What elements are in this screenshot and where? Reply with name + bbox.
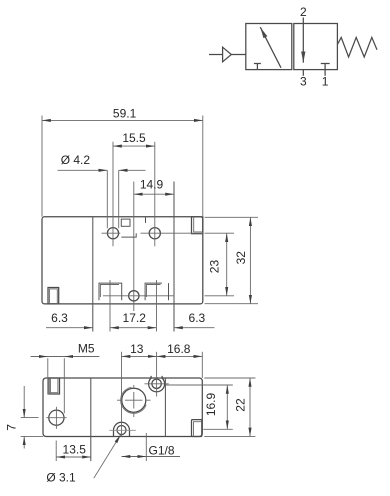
- svg-text:Ø 4.2: Ø 4.2: [61, 153, 91, 167]
- dim 7 extension top: [21, 417, 39, 419]
- valve box left: [246, 24, 292, 70]
- dim 4.2 leader right: [119, 169, 146, 171]
- M5 bore line left: [47, 358, 49, 394]
- hole left vertical centerline: [112, 142, 114, 247]
- side port square inner: [49, 289, 57, 304]
- svg-text:17.2: 17.2: [123, 311, 147, 325]
- side outlet horizontal centerline: [46, 417, 66, 419]
- M5 bore line right: [63, 358, 65, 413]
- svg-text:Ø 3.1: Ø 3.1: [46, 471, 76, 485]
- breather horizontal centerline: [109, 429, 136, 431]
- dim G1/8 arrow right: [138, 456, 146, 458]
- valve box right: [294, 24, 338, 70]
- dim M5 arrow right: [64, 356, 73, 358]
- dim 22 extension top: [204, 377, 255, 379]
- exhaust hole bottom: [129, 291, 139, 301]
- svg-text:6.3: 6.3: [189, 311, 206, 325]
- pocket notch: [121, 219, 130, 226]
- pilot triangle: [223, 47, 232, 62]
- top view left division wire: [92, 217, 94, 332]
- port 2 line with arrow: [302, 18, 304, 63]
- mounting hole left: [107, 228, 118, 239]
- dim 32 line: [249, 217, 251, 303]
- leader 3.1: [94, 435, 121, 478]
- top view center line: [133, 182, 135, 312]
- dim 13 line: [122, 355, 157, 357]
- G1/8 thread arc: [121, 387, 147, 413]
- svg-text:14.9: 14.9: [140, 178, 164, 192]
- dim 16.8 line: [157, 355, 203, 357]
- svg-text:16.8: 16.8: [167, 342, 191, 356]
- dim 23 extension top: [205, 232, 235, 234]
- pilot port inner circle: [152, 379, 161, 388]
- top view body: [42, 217, 203, 304]
- pilot port outer circle: [149, 376, 165, 392]
- svg-text:3: 3: [300, 75, 307, 89]
- svg-text:23: 23: [207, 260, 221, 274]
- svg-text:13: 13: [130, 342, 144, 356]
- hole right horizontal centerline: [141, 232, 204, 234]
- dim 32 extension top: [205, 216, 259, 218]
- svg-text:6.3: 6.3: [51, 311, 68, 325]
- hole left horizontal centerline: [102, 232, 121, 234]
- pocket step: [121, 233, 136, 237]
- pilot to box wire: [231, 54, 246, 56]
- G1/8 horizontal centerline: [117, 399, 151, 401]
- svg-text:1: 1: [322, 75, 329, 89]
- bottom view body: [43, 378, 202, 437]
- M5 port square inner: [50, 378, 58, 393]
- svg-text:13.5: 13.5: [63, 443, 87, 457]
- dim 6.3 right line: [174, 327, 215, 329]
- bottom view left division wire: [90, 378, 92, 461]
- pilot port horizontal centerline: [145, 383, 169, 385]
- bottom port centerline right: [156, 280, 158, 332]
- dim 16.9 extension bottom: [203, 428, 233, 430]
- dim G1/8 arrow left: [122, 456, 131, 458]
- breather hole circle: [117, 426, 126, 435]
- dim 7 extension bottom: [21, 435, 43, 437]
- dim 7 lower arrow: [23, 436, 25, 448]
- dim 13.5 line: [56, 456, 91, 458]
- spring: [337, 37, 377, 57]
- right port square inner: [194, 422, 202, 437]
- G1/8 port circle: [122, 388, 146, 412]
- side outlet vertical centerline: [55, 407, 57, 429]
- svg-text:G1/8: G1/8: [149, 443, 175, 457]
- dim M5 line: [31, 356, 100, 358]
- pilot line: [209, 54, 223, 56]
- mounting hole right: [149, 228, 160, 239]
- small tick right hole: [145, 217, 147, 223]
- dim 23 extension bottom: [205, 295, 235, 297]
- dim 14.9 line: [134, 193, 174, 195]
- bottom port bracket left inner: [100, 285, 119, 298]
- bottom port bracket left: [99, 283, 122, 300]
- svg-text:22: 22: [234, 398, 248, 412]
- exhaust hole horizontal centerline: [103, 295, 174, 297]
- G1/8 vertical centerline: [133, 385, 135, 417]
- dim 6.3 left line: [46, 327, 93, 329]
- top view right division wire: [173, 182, 175, 332]
- dim 15.5 line: [113, 145, 155, 147]
- dim M5 arrow left: [39, 356, 48, 358]
- dim 7 upper arrow: [23, 386, 25, 418]
- bottom port centerline left: [109, 280, 111, 332]
- dim 16.9 extension top: [166, 384, 233, 386]
- side port square top-right inner: [194, 217, 203, 232]
- bottom port bracket right: [145, 283, 168, 300]
- dim 22 extension bottom: [204, 435, 255, 437]
- bottom port bracket right inner: [147, 285, 161, 298]
- dim 23 line: [226, 233, 228, 296]
- svg-text:M5: M5: [78, 342, 95, 356]
- dim 59.1 line: [42, 119, 203, 121]
- M5 port square: [49, 378, 60, 394]
- port 3 stub: [302, 70, 304, 76]
- dim 16.8 extension right: [201, 352, 203, 378]
- dim G1/8 extension right: [145, 433, 147, 461]
- dim G1/8 line: [122, 456, 181, 458]
- side outlet circle: [49, 410, 64, 425]
- dim 17.2 line: [110, 327, 157, 329]
- dim 4.2 extension right: [118, 170, 120, 228]
- bottom view right division wire: [164, 378, 166, 437]
- svg-text:59.1: 59.1: [113, 107, 137, 121]
- svg-text:2: 2: [300, 5, 307, 19]
- dim 32 extension bottom: [205, 303, 259, 305]
- breather vertical centerline: [121, 352, 123, 437]
- dim 59.1 extension right: [202, 116, 204, 217]
- svg-text:15.5: 15.5: [122, 131, 146, 145]
- hole right vertical centerline: [154, 142, 156, 247]
- blocked port T left box: [254, 64, 261, 70]
- pilot port vertical centerline: [156, 352, 158, 397]
- dim 22 line: [249, 378, 251, 436]
- svg-text:16.9: 16.9: [204, 392, 218, 416]
- dim 4.2 leader left: [58, 169, 108, 171]
- breather boss arc: [114, 422, 130, 436]
- port 1 blocked T: [321, 64, 330, 76]
- right port square bottom: [192, 420, 202, 437]
- svg-text:7: 7: [5, 424, 19, 431]
- dim 16.9 line: [226, 385, 228, 429]
- side port square top-right: [192, 217, 203, 234]
- dim 13.5 extension left: [55, 441, 57, 462]
- flow arrow left box: [260, 27, 281, 68]
- dim 4.2 extension left: [106, 170, 108, 228]
- side port square bottom-left: [48, 288, 59, 304]
- dim 59.1 extension left: [41, 116, 43, 217]
- svg-text:32: 32: [234, 251, 248, 265]
